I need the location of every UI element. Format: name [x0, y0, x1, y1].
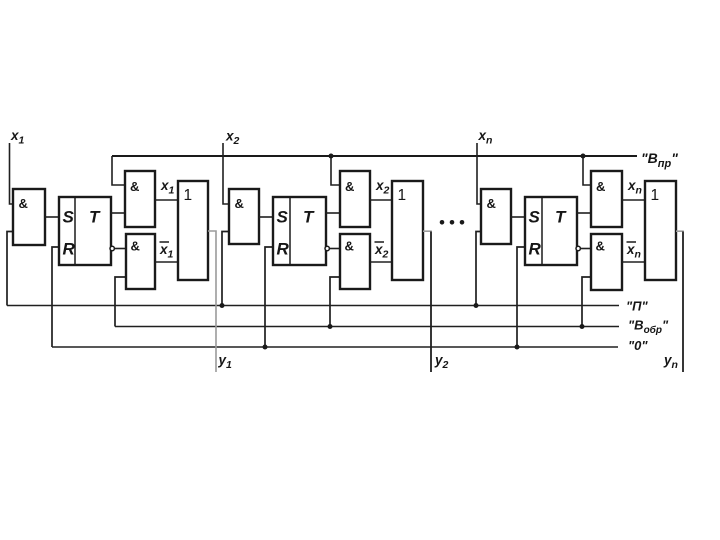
svg-text:T: T — [555, 208, 567, 227]
and-gate D2.2 (direct output AND) — [340, 171, 370, 227]
svg-text:S: S — [277, 208, 289, 227]
or-gate Dn.4 — [645, 181, 676, 280]
bus 0 (reset line) — [52, 346, 618, 348]
svg-text:&: & — [131, 239, 140, 254]
wire Tn Q output to ANDn.2 — [577, 212, 591, 214]
wire AND2.3 output to OR2, node x-bar 2 — [370, 261, 392, 263]
wire AND2.2 output to OR2, node x2 — [370, 199, 392, 201]
overbar of x1 inverse label — [160, 241, 170, 243]
inversion bubble T1 Q-not output — [110, 246, 114, 250]
svg-text:"П": "П" — [626, 299, 649, 314]
wire y2 output vertical — [430, 232, 432, 373]
and-gate D1.1 (input AND) — [13, 189, 45, 245]
junction on П bus, stage 2 — [220, 303, 225, 308]
wire 0-bus to R input of T1 — [52, 247, 59, 347]
svg-text:&: & — [596, 239, 605, 254]
and-gate D1.2 (direct output AND) — [125, 171, 155, 227]
wire x2 input vertical — [223, 143, 229, 204]
svg-text:R: R — [63, 240, 76, 259]
junction on Впр bus, stage 2 — [329, 154, 334, 159]
junction on Впр bus, stage n — [581, 154, 586, 159]
T flip-flop T2 — [273, 197, 326, 265]
wire x1 input vertical — [10, 143, 14, 204]
svg-text:T: T — [303, 208, 315, 227]
bus Вобр (backward enable line) — [115, 326, 619, 328]
wire П feed to AND1.1 lower input — [7, 232, 13, 306]
and-gate D2.3 (inverse output AND) — [340, 234, 370, 289]
svg-text:"0": "0" — [628, 338, 648, 353]
wire T2 Q output to AND2.2 — [326, 212, 340, 214]
svg-text:R: R — [529, 240, 542, 259]
wire Tn Q-not output to ANDn.3 — [581, 248, 592, 250]
inversion bubble Tn Q-not output — [576, 246, 580, 250]
svg-text:1: 1 — [184, 187, 193, 204]
junction on П bus, stage n — [474, 303, 479, 308]
svg-text:&: & — [345, 179, 354, 194]
svg-text:&: & — [487, 196, 496, 211]
svg-text:1: 1 — [398, 187, 407, 204]
or-gate D1.4 — [178, 181, 208, 280]
or-gate D2.4 — [392, 181, 423, 280]
wire y2 output stub (grey) — [423, 230, 432, 232]
svg-text:&: & — [235, 196, 244, 211]
bus Впр (forward enable line) — [112, 155, 637, 157]
and-gate Dn.3 (inverse output AND) — [591, 234, 622, 290]
wire П feed to AND2.1 lower input — [222, 232, 229, 306]
svg-text:&: & — [345, 239, 354, 254]
bus П (count line) — [7, 305, 619, 307]
and-gate D2.1 (input AND) — [229, 189, 259, 244]
svg-text:&: & — [130, 179, 139, 194]
junction on Вобр bus, stage 2 — [328, 324, 333, 329]
wire 0-bus to R input of T2 — [265, 247, 273, 347]
wire 0-bus to R input of Tn — [517, 247, 525, 347]
wire Вобр bus up to AND1.3 lower input — [115, 277, 126, 327]
T flip-flop T1 — [59, 197, 111, 265]
svg-text:&: & — [596, 179, 605, 194]
wire yn output stub (grey) — [676, 230, 684, 232]
wire Впр bus down to AND1.2 upper input — [112, 156, 125, 185]
wire П feed to ANDn.1 lower input — [476, 232, 481, 306]
wire Вобр bus up to AND2.3 lower input — [330, 277, 340, 327]
wire yn output vertical — [682, 232, 684, 373]
wire ANDn.2 output to ORn, node xn — [622, 199, 645, 201]
junction on 0 bus, stage 2 — [263, 345, 268, 350]
overbar of x2 inverse label — [375, 241, 385, 243]
ellipsis between stage 2 and stage n — [440, 220, 445, 225]
wire Впр bus down to ANDn.2 upper input — [583, 156, 591, 185]
wire Вобр bus up to ANDn.3 lower input — [582, 277, 591, 327]
junction on Вобр bus, stage n — [580, 324, 585, 329]
wire y1 output (grey) — [208, 231, 216, 372]
wire AND1.3 output to OR1, node x-bar 1 — [155, 261, 178, 263]
and-gate D1.3 (inverse output AND) — [126, 234, 155, 289]
T flip-flop Tn — [525, 197, 577, 265]
wire T1 Q output to AND1.2 — [111, 212, 125, 214]
wire AND1.2 output to OR1, node x1 — [155, 199, 178, 201]
and-gate Dn.2 (direct output AND) — [591, 171, 622, 227]
wire AND1.1 output to S input — [45, 216, 59, 218]
wire T1 Q-not output to AND1.3 — [115, 248, 127, 250]
wire T2 Q-not output to AND2.3 — [330, 248, 341, 250]
wire AND2.1 output to S input — [259, 216, 273, 218]
wire ANDn.3 output to ORn, node x-bar n — [622, 261, 645, 263]
wire xn input vertical — [477, 143, 481, 204]
inversion bubble T2 Q-not output — [325, 246, 329, 250]
svg-text:S: S — [529, 208, 541, 227]
overbar of xn inverse label — [627, 241, 637, 243]
svg-text:&: & — [19, 196, 28, 211]
svg-text:T: T — [89, 208, 101, 227]
wire Впр bus down to AND2.2 upper input — [331, 156, 340, 185]
wire ANDn.1 output to S input — [511, 216, 525, 218]
junction on 0 bus, stage n — [515, 345, 520, 350]
svg-text:S: S — [63, 208, 75, 227]
svg-text:R: R — [277, 240, 290, 259]
and-gate Dn.1 (input AND) — [481, 189, 511, 244]
svg-text:1: 1 — [651, 187, 660, 204]
